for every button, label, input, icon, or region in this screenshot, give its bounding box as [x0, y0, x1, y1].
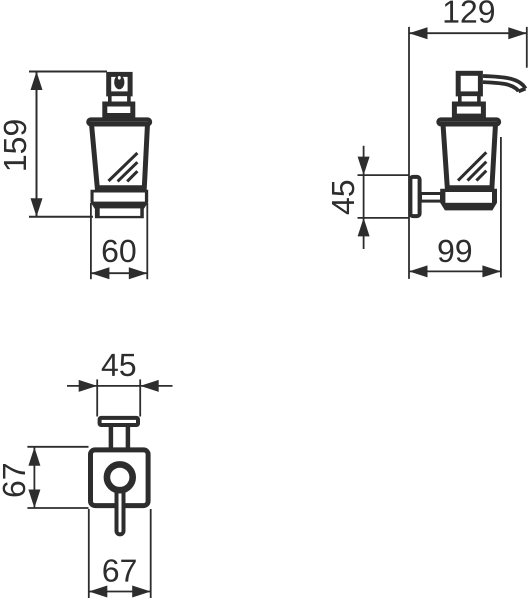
bracket stem right line — [126, 427, 131, 448]
wall line, left extension of dims 129 and 99 — [408, 27, 410, 279]
dim 67 bottom left extension line — [88, 509, 90, 598]
pump cap (side) — [458, 73, 480, 94]
dim 67 left top extension line — [27, 446, 88, 448]
dim 129 arrow left — [409, 27, 428, 39]
dim 45 bottom extension line — [358, 217, 409, 219]
dim 67 left dimension line — [33, 447, 35, 508]
holder band window (front) — [94, 193, 145, 202]
dim 129 arrow right — [508, 27, 527, 39]
pump cap (front) — [109, 74, 130, 94]
dim 159 dimension line — [36, 72, 38, 217]
dim 45 left extension line (bracket) — [96, 379, 98, 416]
dim 159 arrow up — [31, 72, 43, 91]
dim 67 left arrow up — [28, 447, 40, 466]
dim 67 bottom right extension line — [150, 509, 152, 598]
pump collar narrow (front) — [108, 96, 131, 101]
dim 67 left bottom extension line — [27, 507, 88, 509]
bracket stem left line — [109, 427, 114, 448]
glass shine hatch (side) — [458, 152, 486, 180]
pump nozzle dot — [114, 75, 124, 89]
dim 60 arrow left — [91, 267, 110, 279]
dim 45 arrow pointing right — [79, 380, 98, 392]
dim 60 right extension line — [146, 203, 148, 279]
bottle body (front) — [92, 124, 148, 188]
dim 99 arrow left — [409, 265, 428, 277]
dim 45 arrow up — [358, 218, 370, 237]
dim 67 bottom dimension line — [89, 591, 151, 593]
wall plate (bracket front) — [91, 450, 149, 506]
dim 99 arrow right — [482, 265, 501, 277]
bottle rim (front) — [88, 119, 150, 124]
wall plate (side) — [410, 177, 419, 216]
dim 159 arrow down — [31, 198, 43, 217]
dim 45 right extension line (bracket) — [139, 379, 141, 416]
lever handle — [117, 490, 124, 535]
dim 60 dimension line — [91, 272, 147, 274]
holder band window (side) — [445, 192, 492, 203]
dim 159 bottom extension line — [29, 216, 93, 218]
holder ring bar (bracket front) — [100, 418, 138, 425]
dim 159 top extension line — [29, 71, 107, 73]
dim 45 dimension line (bracket) — [67, 385, 173, 387]
dim 45 arrow pointing left — [140, 380, 159, 392]
dim 67 bottom arrow left — [89, 586, 108, 598]
mounting ring — [107, 464, 133, 490]
dim 67 bottom arrow right — [132, 586, 151, 598]
wall arm — [421, 194, 442, 202]
dim 99 right extension line — [500, 137, 502, 278]
bottle foot window (front) — [100, 208, 141, 216]
dim 129 right extension line — [526, 27, 528, 68]
glass shine hatch (front) — [109, 153, 138, 181]
bottle rim (side) — [438, 119, 499, 124]
dim 45 top extension line — [358, 174, 409, 176]
dim 60 arrow right — [129, 267, 148, 279]
holder band and foot silhouette (front) — [91, 190, 149, 218]
dim 99 dimension line — [409, 270, 501, 272]
dim 67 left arrow down — [28, 490, 40, 509]
dim 60 left extension line — [90, 203, 92, 279]
spout top outline — [483, 76, 525, 89]
dim 45 dimension line — [363, 146, 365, 249]
pump collar wide (side) — [454, 104, 483, 116]
pump collar narrow (side) — [458, 96, 481, 101]
dim 45 arrow down — [358, 157, 370, 176]
holder band silhouette (side) — [440, 189, 497, 211]
bottle body (side) — [443, 124, 496, 188]
pump collar wide (front) — [105, 104, 133, 116]
dim 129 dimension line — [409, 32, 527, 34]
spout bottom outline — [483, 82, 519, 91]
spout tip face — [519, 89, 526, 92]
